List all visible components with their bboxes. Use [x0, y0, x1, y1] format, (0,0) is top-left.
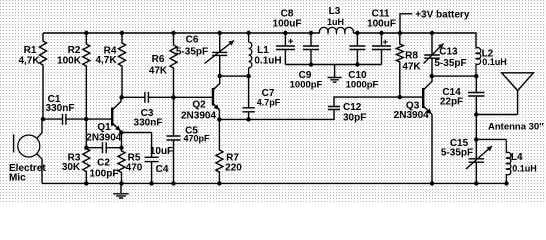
resistor R3: [83, 119, 90, 183]
capacitor C10: [349, 33, 365, 65]
svg-text:1000pF: 1000pF: [346, 80, 379, 91]
svg-text:R2: R2: [68, 45, 81, 56]
capacitor C2: [86, 142, 121, 153]
svg-text:330nF: 330nF: [46, 103, 75, 114]
resistor R6: [170, 33, 177, 97]
inductor L1: [249, 33, 252, 76]
svg-text:30K: 30K: [62, 162, 81, 173]
svg-text:C6: C6: [186, 35, 199, 46]
svg-text:L3: L3: [329, 6, 341, 17]
variable capacitor C15: [469, 139, 485, 183]
svg-text:2N3904: 2N3904: [181, 111, 216, 122]
inductor L2: [476, 46, 481, 76]
junction dots on ground rail: [84, 181, 88, 185]
capacitor C11 (electrolytic): [372, 33, 391, 65]
electret microphone MIC: [18, 135, 40, 157]
node +3V battery tap: [400, 14, 412, 33]
svg-text:4,7K: 4,7K: [18, 56, 40, 67]
svg-text:0.1uH: 0.1uH: [254, 56, 281, 67]
resistor R8: [396, 33, 403, 97]
wire top supply rail: [43, 33, 476, 46]
svg-text:L4: L4: [511, 152, 523, 163]
node audio input junction: [41, 117, 45, 121]
node Q1 emitter junction: [119, 130, 123, 134]
wire decoupling bus: [285, 64, 381, 66]
svg-text:Mic: Mic: [9, 172, 26, 183]
svg-text:2N3904: 2N3904: [86, 133, 121, 144]
svg-text:100K: 100K: [57, 56, 82, 67]
node R5/C2 junction: [119, 146, 123, 150]
ground at decoupling bus: [334, 65, 336, 78]
svg-text:R1: R1: [24, 45, 37, 56]
svg-text:470pF: 470pF: [183, 133, 210, 143]
capacitor C1: [63, 114, 66, 125]
svg-text:1uH: 1uH: [327, 17, 344, 27]
svg-text:C2: C2: [97, 157, 110, 168]
node tank/L2/C14 junction: [474, 74, 478, 78]
capacitor C5: [167, 97, 181, 183]
node L1/C7 tank right: [246, 74, 250, 78]
resistor R1: [40, 33, 47, 119]
node Q2 collector tank left: [218, 74, 222, 78]
svg-text:100uF: 100uF: [367, 19, 396, 30]
node R3/C2 junction: [84, 146, 88, 150]
resistor R7: [216, 119, 223, 183]
node C9 bus junction: [309, 62, 313, 66]
svg-text:R8: R8: [405, 51, 418, 62]
svg-text:C12: C12: [343, 102, 362, 113]
svg-text:R6: R6: [152, 54, 165, 65]
svg-text:4.7pF: 4.7pF: [257, 98, 281, 108]
transistor Q3: [422, 88, 424, 108]
capacitor C7: [242, 76, 254, 119]
svg-text:Q1: Q1: [97, 122, 111, 133]
wire bottom ground rail: [42, 182, 507, 184]
svg-text:470: 470: [126, 163, 143, 174]
capacitor C14: [468, 76, 484, 114]
node C7 emitter-wire junction: [246, 117, 250, 121]
svg-text:1000pF: 1000pF: [290, 80, 323, 91]
node R8 Q3 base junction: [398, 95, 402, 99]
svg-text:Q2: Q2: [192, 100, 206, 111]
ground at emitter/bypass rail: [120, 184, 122, 194]
capacitor C9: [303, 33, 319, 65]
svg-text:5-35pF: 5-35pF: [176, 46, 208, 57]
capacitor C12: [328, 107, 340, 110]
node Q2 emitter junction: [217, 117, 221, 121]
wire Q3 collector tank node: [432, 75, 477, 77]
svg-text:0.1uH: 0.1uH: [482, 57, 507, 67]
capacitor C8 (electrolytic): [276, 33, 295, 65]
antenna ANT: [502, 73, 534, 115]
inductor L3: [319, 27, 353, 33]
svg-text:220: 220: [225, 163, 242, 174]
capacitor C4: [122, 132, 152, 134]
inductor L4: [506, 139, 511, 183]
wire C12 to Q3 base: [334, 97, 423, 106]
node R6/C5 on Q2 base: [171, 95, 175, 99]
node Q3 collector junction: [430, 74, 434, 78]
node antenna tap junction: [474, 112, 478, 116]
wire C15/L4 tank top: [476, 138, 506, 140]
svg-text:30pF: 30pF: [343, 113, 366, 124]
svg-text:C13: C13: [439, 47, 458, 58]
wire mic to Q1 base (audio input node): [43, 118, 112, 120]
variable capacitor C6: [212, 33, 227, 76]
svg-text:L1: L1: [257, 45, 269, 56]
svg-text:+3V battery: +3V battery: [415, 10, 470, 21]
node Q1 collector junction: [119, 95, 123, 99]
svg-text:47K: 47K: [149, 66, 168, 77]
transistor Q2: [212, 88, 214, 106]
node C15/L4 top junction: [474, 137, 478, 141]
svg-text:Antenna 30″: Antenna 30″: [488, 122, 544, 133]
svg-text:330nF: 330nF: [134, 117, 163, 128]
node C10 bus junction: [355, 62, 359, 66]
svg-text:10uF: 10uF: [150, 146, 173, 157]
svg-text:0.1uH: 0.1uH: [512, 164, 537, 174]
transistor Q1: [111, 108, 113, 126]
svg-text:22pF: 22pF: [440, 97, 463, 108]
wire antenna feed from C14: [476, 114, 517, 116]
svg-text:2N3904: 2N3904: [394, 110, 429, 121]
resistor R2: [83, 33, 90, 119]
node Q1 base bias junction: [84, 117, 88, 121]
junction dots on supply rail: [84, 31, 88, 35]
variable capacitor C13: [424, 33, 440, 76]
resistor R4: [119, 33, 126, 97]
svg-text:4,7K: 4,7K: [95, 55, 117, 66]
svg-text:5-35pF: 5-35pF: [434, 58, 466, 69]
svg-text:47K: 47K: [402, 62, 421, 73]
svg-text:5-35pF: 5-35pF: [441, 147, 473, 158]
svg-text:C4: C4: [156, 164, 169, 175]
wire C14 to tank: [475, 115, 477, 140]
wire Q2 emitter line to C12: [219, 110, 334, 120]
svg-text:100uF: 100uF: [273, 19, 302, 30]
capacitor C3: [145, 92, 149, 103]
resistor R5: [118, 133, 125, 184]
wire Q1 collector to Q2 base: [122, 96, 213, 98]
svg-text:100pF: 100pF: [90, 168, 119, 179]
wire C6/L1 tank node to Q2 collector: [220, 75, 249, 77]
